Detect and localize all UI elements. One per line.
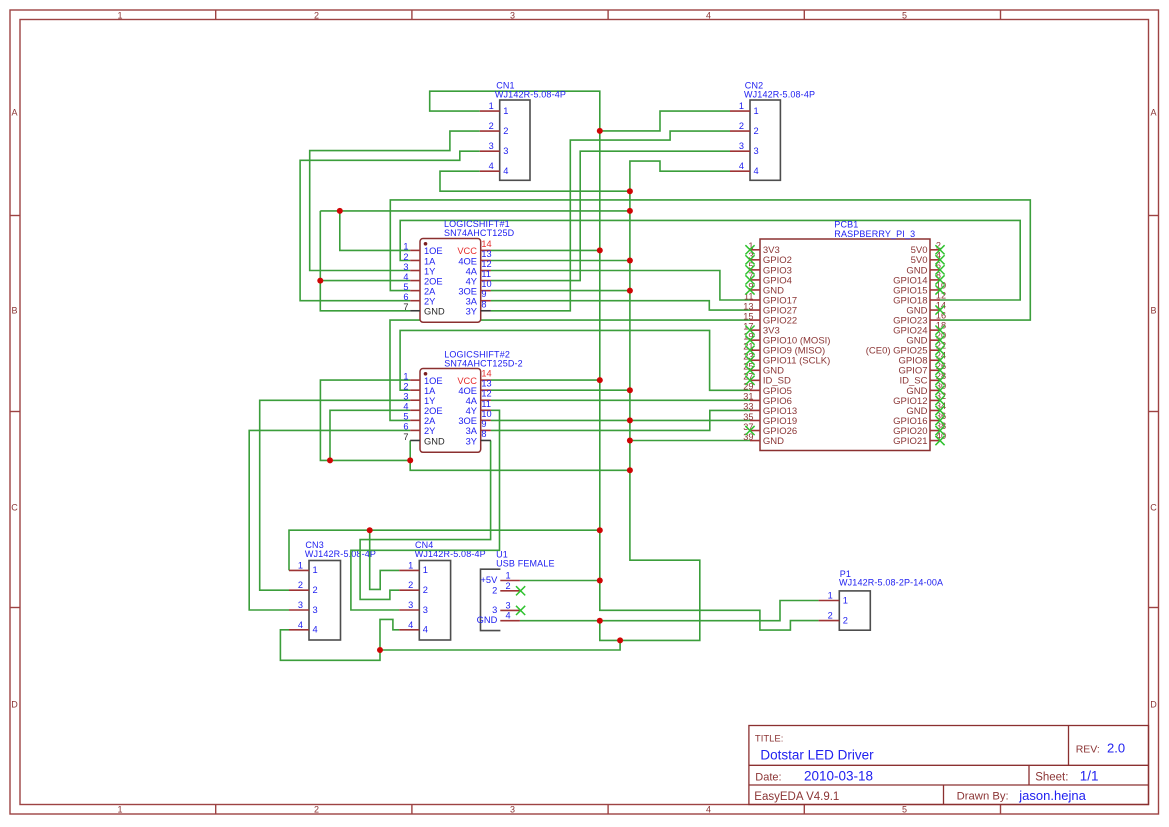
svg-text:VCC: VCC	[457, 246, 477, 256]
svg-text:4: 4	[408, 620, 413, 630]
svg-text:SN74AHCT125D-2: SN74AHCT125D-2	[444, 358, 523, 368]
svg-text:3A: 3A	[466, 297, 478, 307]
svg-text:1: 1	[506, 571, 511, 581]
svg-text:1Y: 1Y	[424, 266, 435, 276]
svg-text:3Y: 3Y	[466, 307, 477, 317]
svg-text:2: 2	[489, 121, 494, 131]
svg-text:3: 3	[403, 262, 408, 272]
svg-text:6: 6	[403, 422, 408, 432]
svg-text:3: 3	[423, 605, 428, 615]
svg-text:4: 4	[706, 10, 711, 20]
svg-text:4Y: 4Y	[466, 406, 477, 416]
svg-text:1: 1	[489, 101, 494, 111]
svg-text:5: 5	[403, 282, 408, 292]
svg-text:1: 1	[117, 10, 122, 20]
svg-text:2: 2	[492, 585, 497, 595]
svg-text:3: 3	[739, 141, 744, 151]
svg-text:A: A	[1150, 108, 1156, 118]
svg-text:12: 12	[481, 259, 491, 269]
svg-text:2010-03-18: 2010-03-18	[804, 769, 873, 784]
svg-text:2: 2	[843, 615, 848, 625]
svg-text:1: 1	[828, 591, 833, 601]
svg-text:1: 1	[503, 106, 508, 116]
svg-text:+5V: +5V	[480, 575, 498, 585]
svg-text:USB FEMALE: USB FEMALE	[496, 558, 555, 568]
svg-text:jason.hejna: jason.hejna	[1018, 788, 1086, 803]
svg-text:11: 11	[481, 399, 491, 409]
svg-text:C: C	[11, 503, 18, 513]
svg-text:GND: GND	[424, 436, 445, 446]
svg-text:14: 14	[481, 239, 491, 249]
svg-text:13: 13	[743, 301, 753, 311]
svg-text:8: 8	[481, 299, 486, 309]
svg-text:1: 1	[408, 560, 413, 570]
svg-text:37: 37	[743, 422, 753, 432]
svg-text:1: 1	[313, 565, 318, 575]
svg-text:D: D	[1150, 700, 1157, 710]
svg-text:2: 2	[828, 611, 833, 621]
svg-text:GND: GND	[763, 436, 784, 447]
svg-text:WJ142R-5.08-2P-14-00A: WJ142R-5.08-2P-14-00A	[839, 578, 943, 588]
svg-text:9: 9	[481, 289, 486, 299]
svg-text:7: 7	[403, 432, 408, 442]
svg-text:4: 4	[706, 805, 711, 815]
svg-text:3: 3	[313, 605, 318, 615]
svg-text:2: 2	[506, 581, 511, 591]
svg-text:14: 14	[481, 369, 491, 379]
svg-text:2: 2	[408, 580, 413, 590]
svg-text:Sheet:: Sheet:	[1035, 772, 1068, 784]
svg-text:7: 7	[403, 302, 408, 312]
svg-text:3A: 3A	[466, 426, 478, 436]
svg-text:2.0: 2.0	[1107, 741, 1125, 756]
svg-text:5: 5	[403, 412, 408, 422]
svg-text:WJ142R-5.08-4P: WJ142R-5.08-4P	[495, 89, 566, 99]
svg-text:1Y: 1Y	[424, 396, 435, 406]
svg-text:1: 1	[403, 371, 408, 381]
svg-text:D: D	[11, 700, 18, 710]
svg-text:4: 4	[403, 402, 408, 412]
svg-text:4: 4	[754, 166, 759, 176]
svg-text:TITLE:: TITLE:	[755, 734, 784, 745]
svg-text:1: 1	[843, 595, 848, 605]
svg-text:12: 12	[481, 389, 491, 399]
svg-text:4: 4	[423, 625, 428, 635]
svg-text:GPIO21: GPIO21	[893, 436, 927, 447]
svg-text:1OE: 1OE	[424, 376, 443, 386]
svg-text:RASPBERRY_PI_3: RASPBERRY_PI_3	[834, 229, 915, 239]
svg-text:1: 1	[423, 565, 428, 575]
svg-text:3: 3	[408, 600, 413, 610]
svg-text:A: A	[11, 108, 17, 118]
svg-text:3: 3	[506, 600, 511, 610]
svg-text:1/1: 1/1	[1080, 769, 1099, 784]
svg-text:4A: 4A	[466, 266, 478, 276]
svg-text:4: 4	[313, 625, 318, 635]
svg-text:10: 10	[481, 279, 491, 289]
svg-text:GND: GND	[424, 307, 445, 317]
svg-text:2A: 2A	[424, 286, 436, 296]
svg-text:4: 4	[506, 611, 511, 621]
svg-text:8: 8	[481, 429, 486, 439]
svg-text:SN74AHCT125D: SN74AHCT125D	[444, 228, 515, 238]
svg-text:13: 13	[481, 379, 491, 389]
svg-text:1A: 1A	[424, 386, 436, 396]
svg-text:6: 6	[403, 292, 408, 302]
svg-text:11: 11	[481, 269, 491, 279]
svg-text:B: B	[11, 306, 17, 316]
svg-text:Dotstar LED Driver: Dotstar LED Driver	[760, 747, 874, 762]
svg-text:3: 3	[298, 600, 303, 610]
svg-text:2: 2	[403, 381, 408, 391]
svg-text:1: 1	[298, 560, 303, 570]
svg-text:B: B	[1150, 306, 1156, 316]
svg-text:9: 9	[481, 419, 486, 429]
svg-text:2: 2	[314, 805, 319, 815]
svg-text:13: 13	[481, 249, 491, 259]
svg-text:17: 17	[743, 321, 753, 331]
svg-text:2Y: 2Y	[424, 426, 435, 436]
svg-text:Date:: Date:	[755, 772, 781, 784]
svg-text:2: 2	[423, 585, 428, 595]
svg-text:VCC: VCC	[457, 376, 477, 386]
svg-text:2OE: 2OE	[424, 276, 443, 286]
svg-text:3: 3	[510, 805, 515, 815]
svg-text:4Y: 4Y	[466, 276, 477, 286]
svg-text:3: 3	[489, 141, 494, 151]
svg-text:5: 5	[902, 805, 907, 815]
svg-text:33: 33	[743, 402, 753, 412]
svg-text:3Y: 3Y	[466, 436, 477, 446]
svg-text:2: 2	[298, 580, 303, 590]
svg-text:3: 3	[492, 605, 497, 615]
svg-text:2: 2	[754, 126, 759, 136]
svg-text:1A: 1A	[424, 256, 436, 266]
svg-text:15: 15	[743, 311, 753, 321]
svg-text:Drawn By:: Drawn By:	[957, 791, 1009, 803]
svg-text:GND: GND	[477, 615, 498, 625]
svg-text:4: 4	[503, 166, 508, 176]
svg-text:2: 2	[503, 126, 508, 136]
svg-text:3: 3	[510, 10, 515, 20]
svg-text:2: 2	[314, 10, 319, 20]
svg-text:3OE: 3OE	[458, 286, 477, 296]
svg-text:EasyEDA V4.9.1: EasyEDA V4.9.1	[754, 791, 839, 803]
svg-text:2: 2	[313, 585, 318, 595]
svg-text:4: 4	[489, 161, 494, 171]
svg-text:35: 35	[743, 412, 753, 422]
svg-text:4OE: 4OE	[458, 256, 477, 266]
svg-text:31: 31	[743, 392, 753, 402]
svg-text:4A: 4A	[466, 396, 478, 406]
svg-text:1: 1	[117, 805, 122, 815]
svg-text:3: 3	[403, 392, 408, 402]
svg-text:4: 4	[739, 161, 744, 171]
svg-text:4OE: 4OE	[458, 386, 477, 396]
svg-text:3: 3	[754, 146, 759, 156]
svg-text:3OE: 3OE	[458, 416, 477, 426]
svg-text:2: 2	[403, 252, 408, 262]
svg-text:1: 1	[754, 106, 759, 116]
svg-text:1: 1	[739, 101, 744, 111]
svg-text:5: 5	[902, 10, 907, 20]
svg-text:2A: 2A	[424, 416, 436, 426]
svg-text:2: 2	[739, 121, 744, 131]
svg-text:3: 3	[503, 146, 508, 156]
svg-text:2Y: 2Y	[424, 297, 435, 307]
svg-text:4: 4	[298, 620, 303, 630]
svg-text:REV:: REV:	[1076, 743, 1100, 755]
svg-text:10: 10	[481, 409, 491, 419]
svg-text:1OE: 1OE	[424, 246, 443, 256]
svg-text:C: C	[1150, 503, 1157, 513]
svg-text:WJ142R-5.08-4P: WJ142R-5.08-4P	[744, 89, 815, 99]
svg-text:4: 4	[403, 272, 408, 282]
svg-text:2OE: 2OE	[424, 406, 443, 416]
svg-text:1: 1	[403, 242, 408, 252]
